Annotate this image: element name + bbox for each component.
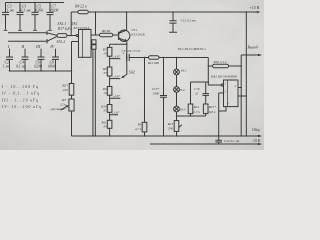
- node: range contact IV: [55, 49, 57, 52]
- label R6 68: [101, 29, 111, 33]
- label R10 33: [100, 105, 107, 113]
- resistor R9: [107, 87, 112, 96]
- label C3 0,1 мк: [20, 4, 30, 13]
- capacitor: DA1 correction box 2: [92, 45, 96, 49]
- label R11 33: [101, 121, 107, 129]
- wire: DA2 input2 drop to rail and C12: [218, 93, 219, 137]
- resistor R1: [57, 34, 67, 38]
- pin: DA2 output: [238, 87, 242, 88]
- wire: W1 down to DA2 input: [208, 58, 221, 86]
- label R5 4,7 к: [135, 123, 142, 132]
- svg-text:R14: R14: [193, 105, 200, 109]
- lamp EL1: [174, 69, 180, 75]
- capacitor C12: [215, 136, 222, 144]
- wire: -15V rail: [150, 143, 262, 145]
- svg-text:33: 33: [103, 109, 107, 113]
- node: tap 4,8 В: [110, 56, 121, 67]
- resistor R12: [149, 56, 160, 60]
- svg-text:EL2: EL2: [178, 88, 185, 92]
- svg-text:6200: 6200: [34, 65, 42, 69]
- label R8 33: [102, 67, 107, 75]
- label SA1.2: [57, 40, 66, 44]
- potentiometer R3: [61, 95, 75, 111]
- label -15 В: [252, 139, 261, 143]
- label R12 680: [147, 61, 159, 65]
- resistor R15: [202, 82, 209, 116]
- capacitor C11: [169, 11, 177, 32]
- wire: SA1.2 wiper bus (line B): [8, 40, 47, 42]
- svg-text:Общ: Общ: [252, 128, 260, 132]
- capacitor C3: [17, 2, 24, 31]
- svg-text:VT1: VT1: [131, 28, 137, 32]
- node: tap 1,8 В: [110, 112, 118, 120]
- capacitor C4: [22, 52, 29, 72]
- wire: lamp chain top lead: [176, 57, 177, 69]
- svg-text:R12 680: R12 680: [147, 61, 159, 65]
- label DA2 КР140УД608: [210, 75, 237, 79]
- label Выход: [248, 46, 258, 50]
- wire: VT1 emitter node: [110, 41, 128, 57]
- resistor R7: [107, 44, 112, 56]
- label C1 1 мк: [7, 4, 14, 12]
- label I: [7, 44, 10, 49]
- wire: output net vertical: [241, 55, 242, 137]
- label pin 3: [225, 90, 227, 93]
- svg-text:С10: С10: [194, 87, 200, 91]
- label R15* 6,8 к: [208, 105, 216, 115]
- label R4 22 к: [74, 5, 87, 9]
- node: range contact II: [24, 49, 26, 52]
- label R16 5,1 к: [213, 60, 227, 65]
- label 1,8 В: [112, 111, 120, 116]
- label pin 2: [225, 82, 227, 85]
- label C4 0,1 мк: [16, 60, 26, 69]
- label К574УД1А: [73, 26, 91, 30]
- pin: DA1 inverting input circle: [76, 34, 78, 36]
- svg-text:SA1.2: SA1.2: [57, 40, 66, 44]
- node: range contact I: [9, 49, 11, 52]
- label SA2: [129, 70, 135, 74]
- capacitor C2: [6, 52, 13, 72]
- lamp EL3: [174, 106, 180, 112]
- pin: DA2 supply to +15V drop: [238, 95, 246, 97]
- svg-text:1 мк: 1 мк: [3, 65, 10, 69]
- wire: DA1 correction drop 1: [92, 49, 93, 137]
- lamp EL2: [174, 87, 180, 93]
- svg-text:8200: 8200: [51, 9, 59, 13]
- capacitor C9: [127, 54, 130, 61]
- resistor R8: [107, 67, 112, 76]
- label EL1-EL3 СМН 60-2: [177, 47, 206, 51]
- capacitor C8: [52, 52, 59, 72]
- label II: [20, 44, 24, 49]
- wire: R3 bottom to rail: [71, 111, 73, 136]
- pin: DA2 input 2: [219, 92, 224, 94]
- node: tap 2,8 В: [110, 95, 121, 104]
- resistor R16: [208, 64, 241, 68]
- label SA1.1: [58, 22, 67, 26]
- resistor R5: [142, 57, 147, 137]
- svg-text:EL1: EL1: [180, 68, 187, 72]
- svg-text:III: III: [35, 44, 41, 49]
- wire: +15V rail: [88, 11, 256, 13]
- wire: DA1 output: [91, 34, 100, 36]
- capacitor C13: [160, 57, 167, 137]
- label EL3: [179, 107, 186, 111]
- pin: DA2 bottom pin: [219, 107, 226, 111]
- svg-text:R4 22 к: R4 22 к: [74, 5, 87, 9]
- wire: oscillator output line W1: [129, 57, 208, 59]
- wire: DA1 correction drop 2: [94, 49, 96, 136]
- label Общ: [252, 128, 260, 132]
- svg-text:КТ3102Б: КТ3102Б: [130, 32, 144, 36]
- label 4,8 В: [113, 54, 121, 59]
- svg-text:EL1-EL3 СМН 60-2: EL1-EL3 СМН 60-2: [177, 47, 206, 51]
- svg-text:1 мк: 1 мк: [7, 9, 14, 13]
- label C2 1 мк: [3, 60, 10, 68]
- op-amp DA2: [224, 80, 239, 107]
- wire: R1 to DA1 input: [67, 35, 76, 37]
- svg-text:К574УД1А: К574УД1А: [73, 26, 91, 30]
- svg-text:1000: 1000: [152, 91, 159, 95]
- label +15 В: [249, 6, 259, 10]
- wire: +15V drop vertical: [246, 11, 247, 136]
- transistor VT1: [119, 30, 130, 41]
- svg-text:-15 В: -15 В: [252, 139, 261, 143]
- wire: feedback top node line H2: [191, 81, 210, 82]
- label R3 12 к частота: [49, 98, 67, 112]
- node: tap 3,8 В: [110, 76, 121, 87]
- resistor R2: [69, 71, 74, 95]
- svg-text:III - 1...10 кГц: III - 1...10 кГц: [1, 98, 38, 102]
- label C8 6800: [48, 60, 56, 68]
- svg-text:SA1.1: SA1.1: [58, 22, 67, 26]
- resistor R4: [71, 10, 88, 14]
- label R1* 6,8 к: [57, 27, 72, 32]
- resistor R14: [188, 82, 193, 116]
- label pin 4: [228, 103, 230, 106]
- svg-text:SA2: SA2: [129, 70, 135, 74]
- svg-text:EL3: EL3: [179, 107, 186, 111]
- svg-text:Выход: Выход: [248, 46, 258, 50]
- svg-text:R2*: R2*: [61, 84, 68, 88]
- svg-text:I - 10...100 Гц: I - 10...100 Гц: [1, 85, 38, 89]
- switch SA1.1 wiper: [47, 31, 57, 36]
- label EL2: [178, 88, 185, 92]
- wire: SA2 wiper from emitter node: [121, 57, 127, 78]
- svg-text:33: 33: [103, 125, 107, 129]
- wire: EL1 to EL2: [176, 75, 178, 87]
- label pin 6: [235, 85, 237, 88]
- svg-text:+15 В: +15 В: [249, 6, 259, 10]
- svg-text:R6 68: R6 68: [101, 29, 111, 33]
- label R9 10: [102, 87, 107, 95]
- svg-text:220: 220: [63, 88, 69, 92]
- label R13 330: [167, 122, 174, 130]
- wire: R6 to VT1 base: [113, 34, 119, 36]
- label 2,8 В: [113, 94, 121, 99]
- switch SA1.2 wiper: [47, 37, 57, 44]
- svg-text:10: 10: [103, 91, 107, 95]
- label EL1: [180, 68, 187, 72]
- label C5 6200: [35, 4, 43, 12]
- label DA1: [70, 22, 78, 26]
- resistor R13: [174, 121, 182, 137]
- wire: output arrow: [241, 54, 262, 56]
- capacitor C7: [47, 2, 54, 31]
- wire: EL2 to EL3: [176, 92, 178, 106]
- label C10 2,2: [194, 87, 200, 96]
- label C12 0,1 мк: [224, 139, 240, 144]
- capacitor: DA1 correction box 1: [92, 40, 96, 44]
- svg-text:10: 10: [103, 51, 107, 55]
- svg-text:С13*: С13*: [152, 87, 159, 91]
- pin: DA2 inverting input circle: [221, 84, 223, 86]
- svg-text:DA2 КР140УД608: DA2 КР140УД608: [210, 75, 237, 79]
- svg-text:6800: 6800: [48, 65, 56, 69]
- resistor R10: [107, 105, 112, 113]
- svg-text:12 к: 12 к: [60, 103, 66, 107]
- label 3,8 В: [113, 74, 121, 79]
- svg-text:II: II: [20, 44, 24, 49]
- capacitor C5: [32, 2, 39, 31]
- svg-text:R15*: R15*: [208, 105, 216, 109]
- resistor R6: [100, 33, 113, 37]
- capacitor C1: [2, 3, 9, 31]
- svg-text:6200: 6200: [35, 9, 43, 13]
- wire: lower capacitor bus: [10, 70, 72, 72]
- wire: R11 to common rail: [109, 128, 110, 136]
- wire: R4 right lead down to DA1 output: [95, 11, 96, 35]
- label VT1 КТ3102Б: [130, 28, 144, 36]
- label III: [35, 44, 41, 49]
- svg-text:33: 33: [103, 71, 107, 75]
- label C7 8200: [51, 4, 59, 12]
- svg-text:330: 330: [168, 127, 173, 131]
- wire: VT1 collector to +15V rail: [126, 11, 127, 30]
- wire: R4 left lead to DA1 input node: [71, 12, 72, 36]
- label C13* 1000: [152, 87, 160, 96]
- wire: SA1.1 wiper bus (line A): [8, 32, 47, 34]
- label C9 470x25 В: [122, 49, 140, 53]
- label R2* 220: [61, 84, 68, 92]
- label C11 0,1 мк: [181, 18, 196, 23]
- svg-text:R3: R3: [61, 98, 66, 102]
- label R7 10: [102, 47, 107, 55]
- label: range legend: [1, 85, 41, 109]
- wire: feedback bottom node line: [176, 115, 206, 116]
- svg-text:IV- 10...100 кГц: IV- 10...100 кГц: [1, 105, 41, 109]
- svg-text:С9 470×25 В: С9 470×25 В: [122, 49, 140, 53]
- capacitor C6: [38, 52, 45, 72]
- label C6 6200: [34, 60, 42, 68]
- pin: DA1 input 3 to capacitor bus: [71, 42, 79, 72]
- op-amp DA1: [79, 30, 92, 58]
- label R14 2,7 к: [193, 105, 201, 115]
- wire: common rail (Общ): [72, 135, 263, 137]
- node: range contact III: [40, 49, 42, 52]
- node: +15V arrow: [257, 11, 261, 13]
- label C9 + polarity: [122, 51, 125, 56]
- label IV: [49, 44, 55, 49]
- svg-text:R13: R13: [167, 122, 174, 126]
- wire: top capacitor rail: [6, 2, 65, 4]
- wire: EL3 down to feedback bottom node: [176, 112, 178, 121]
- svg-text:22: 22: [195, 92, 199, 96]
- resistor R11: [107, 120, 112, 128]
